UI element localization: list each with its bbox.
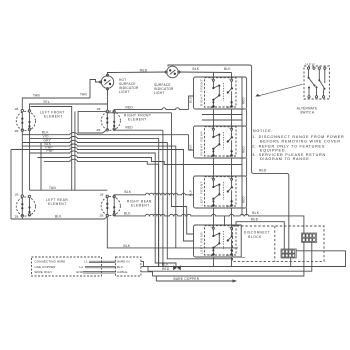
svg-text:1B: 1B — [100, 193, 104, 197]
label LEFT FRONT ELEMENT — [40, 110, 65, 118]
svg-text:TAN: TAN — [80, 92, 87, 96]
wire bottom D bare copper — [156, 280, 237, 283]
svg-text:BLK: BLK — [55, 215, 62, 219]
svg-text:RIGHT FRONT: RIGHT FRONT — [200, 79, 204, 107]
wire RED right front 1B to switch S1 — [114, 108, 188, 111]
wire BLK left rear 2B to right rear 2B — [11, 217, 22, 219]
svg-text:ELEMENT: ELEMENT — [44, 114, 63, 118]
svg-text:BLK: BLK — [124, 244, 131, 248]
wire chain S2-S3 — [214, 158, 232, 179]
svg-text:BLK: BLK — [125, 190, 132, 194]
svg-text:WIRE IN: WIRE IN — [117, 260, 130, 264]
label LEFT REAR ELEMENT — [46, 198, 68, 206]
svg-text:RED: RED — [140, 69, 148, 73]
wire loop around right front element — [78, 111, 106, 133]
svg-text:RED: RED — [241, 146, 245, 153]
svg-text:BLK: BLK — [252, 211, 259, 215]
svg-text:SWITCH: SWITCH — [300, 110, 315, 114]
arrow alternate switch pointer — [255, 84, 302, 96]
svg-text:2B: 2B — [15, 215, 19, 219]
wire L1 link — [89, 261, 116, 262]
svg-text:RED: RED — [259, 169, 267, 173]
label HOT SURFACE INDICATOR LIGHT — [119, 78, 139, 94]
wire BLK long bottom of right rear 2B — [107, 217, 238, 248]
svg-text:CABLE: CABLE — [117, 270, 128, 274]
svg-text:NOTICE:: NOTICE: — [253, 129, 273, 133]
svg-text:LIGHT: LIGHT — [154, 91, 165, 95]
element E1 left front — [16, 109, 35, 131]
alternate switch SW-ALT — [304, 63, 329, 99]
wire YEL — [30, 104, 108, 111]
indicator light DS2 (surface) — [165, 66, 180, 78]
svg-text:BLK: BLK — [124, 211, 131, 215]
wire staircase L2 — [141, 267, 148, 272]
box left front element — [31, 107, 72, 135]
svg-text:L1 P L2: L1 P L2 — [306, 63, 316, 66]
svg-text:RED: RED — [126, 126, 134, 130]
svg-text:RIGHT REAR: RIGHT REAR — [200, 131, 204, 156]
svg-text:LEFT REAR: LEFT REAR — [200, 232, 204, 254]
wire bundle L8 — [44, 159, 159, 266]
wire PRP bundle L6 — [30, 151, 177, 267]
wire chain S3-S4 — [214, 208, 232, 228]
disconnect block outline — [233, 226, 325, 261]
svg-text:USE COPPER: USE COPPER — [35, 265, 56, 269]
wire staircase L1 — [141, 261, 144, 266]
svg-text:LEFT FRONT: LEFT FRONT — [200, 181, 204, 206]
wire left vertical 2B to rear 1B — [21, 131, 23, 195]
wire bottom C — [153, 242, 304, 276]
wire GRY bundle L3 — [22, 140, 232, 258]
wire chain S1-S2 — [214, 109, 232, 129]
svg-text:BLK: BLK — [162, 262, 169, 266]
svg-text:RED: RED — [126, 105, 134, 109]
wire BLK right rear 1B to switch area — [114, 193, 193, 196]
svg-text:2B: 2B — [15, 129, 19, 133]
wire TAN L1 top — [22, 98, 90, 110]
svg-text:BLK: BLK — [188, 97, 192, 103]
element E2 right front — [101, 110, 120, 131]
terminal block TB-B — [302, 233, 317, 242]
svg-text:BEFORE REMOVING WIRE COVER.: BEFORE REMOVING WIRE COVER. — [260, 139, 343, 143]
switch S1 right front — [194, 77, 247, 109]
box connecting wire note — [32, 257, 102, 276]
label DISCONNECT BLOCK — [244, 231, 270, 239]
svg-text:BLK: BLK — [188, 190, 192, 196]
svg-text:BLK.: BLK. — [117, 265, 124, 269]
wire GND link — [83, 272, 116, 273]
wire S3 feeder mid — [162, 130, 164, 266]
wire YEL drop to rear tan — [29, 131, 31, 191]
label WIRE IN BLK CABLE — [117, 260, 130, 274]
wire TB-A bottom drop — [290, 258, 292, 267]
label ALTERNATE SWITCH — [297, 107, 318, 115]
svg-text:RED: RED — [251, 218, 259, 222]
svg-text:YEL: YEL — [43, 100, 50, 104]
wire gap1 link to rail — [202, 115, 242, 121]
svg-text:1B: 1B — [15, 107, 19, 111]
wire DS2 to switch S1 top — [179, 71, 232, 74]
element E3 left rear — [16, 195, 35, 217]
svg-text:L1: L1 — [84, 260, 88, 264]
wire DS1 bottom to element — [107, 89, 109, 110]
wire DS1 left to TAN riser — [90, 80, 101, 99]
wire S3 feeder lower — [172, 113, 194, 234]
svg-text:TAN: TAN — [33, 94, 40, 98]
svg-text:1B: 1B — [97, 107, 101, 111]
wire BLK bundle L4 — [22, 144, 176, 248]
label RIGHT REAR ELEMENT — [127, 199, 152, 207]
svg-text:BLK: BLK — [193, 67, 200, 71]
svg-text:BLOCK: BLOCK — [248, 235, 262, 239]
svg-text:CONNECTING WIRE: CONNECTING WIRE — [35, 260, 66, 264]
box wire in blk cable — [116, 257, 141, 276]
svg-text:BLK: BLK — [188, 144, 192, 150]
svg-text:WIRE ONLY: WIRE ONLY — [35, 270, 53, 274]
wire BLK right rear lower — [114, 214, 304, 232]
wire top rail to switch column — [168, 65, 289, 249]
wire staircase GND — [141, 272, 153, 276]
indicator light DS1 (hot surface) — [100, 74, 114, 90]
wire bundle L7 — [37, 155, 242, 164]
svg-text:1B: 1B — [15, 192, 19, 196]
svg-text:LIGHT: LIGHT — [119, 90, 130, 94]
label RIGHT FRONT ELEMENT — [124, 114, 151, 122]
svg-text:RED: RED — [241, 97, 245, 104]
svg-text:TAN: TAN — [49, 186, 56, 190]
wire TAN left rear — [30, 189, 108, 191]
element E4 right rear — [101, 195, 120, 217]
wire L1 into S2 left pin — [189, 135, 194, 150]
junction splice on wire A — [173, 265, 181, 270]
switch S2 right rear — [194, 126, 247, 158]
wire GRY drop — [40, 143, 42, 191]
wire stub into S4 top — [224, 216, 226, 226]
wire RED DS1 to DS2 — [108, 72, 167, 75]
wire PRP bundle L5 — [11, 147, 194, 241]
wire RED right front 2B — [114, 128, 163, 131]
wire bottom B RED — [148, 242, 312, 271]
terminal block TB-A — [281, 249, 296, 258]
wire S1 top entry pins — [214, 73, 232, 80]
wire staircase bare — [153, 276, 157, 281]
svg-text:RED: RED — [241, 196, 245, 203]
wire bottom A BLK — [144, 251, 346, 267]
switch S3 left front — [194, 176, 247, 208]
svg-text:ELEMENT: ELEMENT — [131, 203, 150, 207]
wire VIO bundle L2 — [30, 137, 159, 267]
svg-text:L2: L2 — [80, 265, 84, 269]
svg-text:ELEMENT: ELEMENT — [48, 202, 67, 206]
notice text block — [252, 129, 344, 161]
wire into S1 left pin — [189, 96, 194, 109]
label CONNECTING WIRE USE COPPER WIRE ONLY — [35, 260, 88, 274]
svg-text:2B: 2B — [100, 214, 104, 218]
svg-text:2B: 2B — [97, 128, 101, 132]
wire right rail S-column — [242, 109, 247, 216]
label SURFACE INDICATOR LIGHT — [154, 83, 174, 95]
wire left edge riser PRP down — [10, 150, 12, 220]
svg-text:BARE COPPER: BARE COPPER — [174, 277, 200, 281]
svg-text:RED: RED — [162, 267, 170, 271]
svg-text:GND: GND — [76, 270, 83, 274]
svg-text:PRP: PRP — [47, 149, 54, 153]
svg-text:DIAGRAM TO RANGE.: DIAGRAM TO RANGE. — [260, 157, 311, 161]
wire BLK bundle L1 — [22, 133, 188, 135]
wire RED S4 to disconnect A — [236, 222, 284, 249]
wire L2 link — [85, 266, 116, 267]
svg-text:BLK: BLK — [224, 67, 231, 71]
wire mid feeder — [107, 112, 171, 114]
wire chain S4 down — [214, 257, 232, 267]
switch S4 left rear — [194, 225, 247, 257]
svg-text:ELEMENT: ELEMENT — [128, 118, 147, 122]
wire riser pair to left rear tan — [72, 111, 75, 190]
